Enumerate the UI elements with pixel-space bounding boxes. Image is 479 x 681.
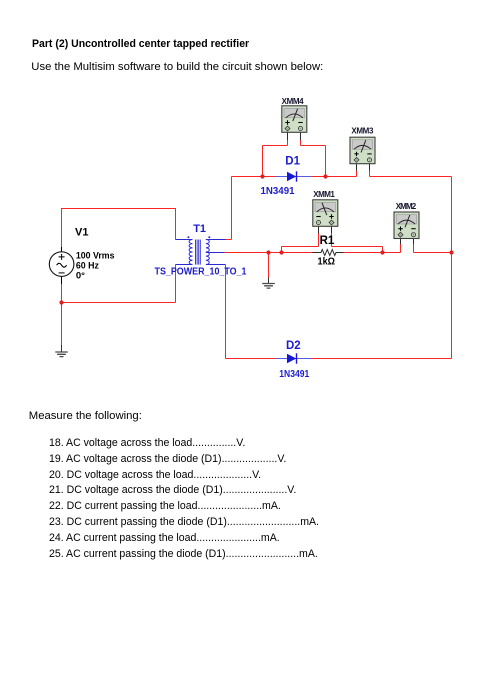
secondary center tap stub (206, 252, 225, 254)
svg-text:XMM4: XMM4 (282, 97, 305, 106)
wire right rail lower (312, 253, 452, 359)
node dot right rail (449, 250, 453, 254)
diode D1 (276, 171, 313, 181)
wire secondary top to D1 row (226, 177, 276, 240)
circuit schematic (0, 0, 479, 410)
primary bottom stub (176, 264, 193, 266)
wire XMM1 minus to left node (282, 233, 319, 253)
primary top stub (176, 239, 193, 241)
wire D1 cathode to XMM3 (312, 176, 357, 178)
wire XMM1 plus to right node (332, 233, 383, 253)
multimeter XMM1 (313, 200, 338, 233)
core lines (196, 240, 201, 265)
node dot D1 anode (260, 174, 264, 178)
wire XMM4 left riser (263, 140, 288, 177)
secondary bottom stub (206, 264, 226, 266)
wire XMM3 to right rail down (370, 177, 452, 253)
svg-text:0°: 0° (76, 270, 85, 281)
wire center tap to R1 (225, 252, 313, 254)
svg-text:XMM2: XMM2 (396, 202, 417, 211)
secondary coil (206, 240, 209, 265)
wire XMM4 right riser (301, 140, 326, 177)
source V1 circle (49, 247, 74, 284)
svg-text:V1: V1 (75, 227, 88, 239)
diode D2 (276, 353, 313, 363)
list (49, 436, 319, 562)
node dot R1 right (380, 250, 384, 254)
svg-text:1kΩ: 1kΩ (318, 256, 336, 268)
wire XMM2 to right rail (414, 244, 452, 253)
svg-text:XMM1: XMM1 (313, 190, 335, 199)
polarity dot left (187, 236, 189, 238)
node dot V1 bottom (59, 300, 63, 304)
wire XMM3 terminal stubs red (357, 171, 370, 177)
wire primary top loop (62, 209, 176, 248)
wire primary bottom loop (62, 265, 176, 346)
ground below V1 (55, 345, 68, 357)
subtitle (31, 61, 323, 73)
svg-text:XMM3: XMM3 (351, 126, 374, 135)
polarity dot right (208, 236, 210, 238)
transformer T1 (176, 236, 226, 264)
wire R1 right to XMM2 (344, 244, 401, 253)
svg-text:T1: T1 (193, 223, 206, 235)
svg-text:1N3491: 1N3491 (261, 186, 295, 197)
svg-text:D1: D1 (285, 156, 300, 168)
multimeter XMM2 (394, 212, 419, 244)
title (32, 38, 249, 50)
svg-text:R1: R1 (320, 235, 335, 247)
node dot center tap ground (266, 250, 270, 254)
multimeter XMM4 (282, 106, 307, 140)
wire D2 row left + secondary bottom vertical (226, 265, 276, 359)
svg-text:D2: D2 (286, 340, 301, 352)
resistor R1 (313, 250, 344, 256)
node dot XMM1 minus (279, 250, 283, 254)
primary coil (189, 240, 192, 265)
ground at center tap (262, 278, 275, 289)
wire ground drop at center tap (268, 253, 270, 278)
svg-text:TS_POWER_10_TO_1: TS_POWER_10_TO_1 (155, 267, 247, 278)
secondary top stub (206, 239, 226, 241)
measure heading (29, 410, 142, 422)
node dot D1 cathode (323, 174, 327, 178)
svg-text:1N3491: 1N3491 (279, 369, 309, 380)
multimeter XMM3 (350, 137, 375, 170)
